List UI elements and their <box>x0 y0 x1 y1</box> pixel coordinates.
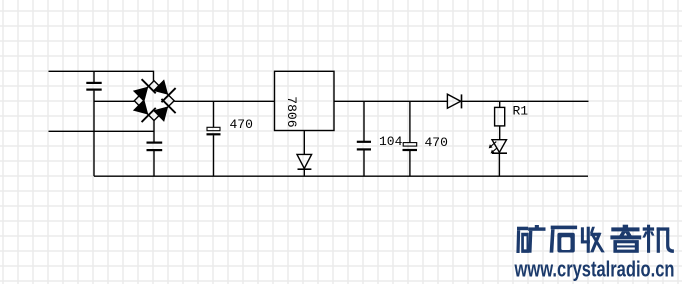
diode bridge top-left <box>131 79 155 103</box>
LED arrows <box>490 142 497 153</box>
wire cap C1 drop <box>93 71 95 82</box>
svg-text:R1: R1 <box>513 104 529 119</box>
wire C5 to rail <box>409 151 411 176</box>
ground rail <box>94 175 588 177</box>
wire U1 gnd lead <box>303 131 305 155</box>
bridge diodes <box>131 78 175 123</box>
wire C2 to rail <box>153 151 155 176</box>
wire lower AC input <box>49 130 155 132</box>
svg-text:470: 470 <box>230 117 253 132</box>
wire C4 to rail <box>363 150 365 176</box>
diode D6 series <box>447 94 460 108</box>
capacitor C1 series dropper <box>86 83 101 90</box>
capacitor C5 470 electrolytic <box>403 143 417 147</box>
char shi <box>550 226 578 253</box>
wire bridge bottom lead <box>153 121 155 142</box>
char kuang <box>516 225 545 253</box>
wire left vertical to ground rail <box>93 91 95 177</box>
wire D6 to output <box>462 100 589 102</box>
watermark logo text <box>516 225 673 253</box>
capacitor C4 104 <box>357 142 371 150</box>
op-amp U1 7806 regulator box <box>275 71 335 130</box>
bridge rectifier D1-D4 diamond <box>134 81 174 121</box>
wire R1 drop <box>499 101 501 107</box>
diode bridge bottom-right <box>151 99 175 123</box>
diode D5 under regulator <box>297 154 312 168</box>
wire C5 drop <box>409 101 411 142</box>
wire node to bridge left <box>94 100 134 102</box>
svg-text:104: 104 <box>379 134 403 149</box>
wire D5 to rail <box>303 169 305 176</box>
svg-text:470: 470 <box>425 135 448 150</box>
LED arrowheads <box>489 144 495 153</box>
wire LED to rail <box>498 153 500 176</box>
capacitor C3 470 electrolytic <box>207 127 220 130</box>
wire top AC input <box>49 71 154 81</box>
diode bridge bottom-left <box>131 98 155 122</box>
wire regulator output <box>334 100 447 102</box>
wire bridge right to regulator <box>174 100 274 102</box>
char shou <box>581 227 605 253</box>
wire C4 drop <box>363 101 365 141</box>
resistor R1 <box>495 107 505 126</box>
wire C3 drop <box>213 101 215 127</box>
char ji <box>642 225 673 253</box>
char yin <box>610 225 641 253</box>
capacitor C2 under bridge <box>147 143 163 151</box>
svg-text:7806: 7806 <box>284 96 299 127</box>
diode bridge top-right <box>151 78 175 102</box>
wire R1 to LED <box>499 126 501 140</box>
LED D7 <box>492 140 507 153</box>
wire C3 to rail <box>213 135 215 176</box>
svg-text:www.crystalradio.cn: www.crystalradio.cn <box>514 257 675 282</box>
